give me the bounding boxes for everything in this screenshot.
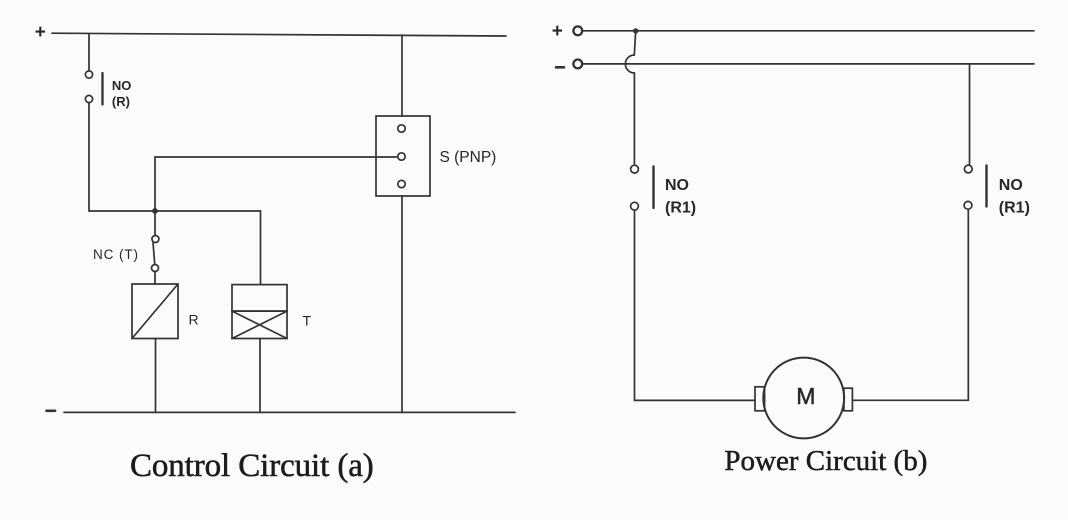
wire top supply rail (control): [52, 33, 506, 36]
wire top supply rail (power): [582, 30, 1034, 32]
wire right riser up to NO(R1): [967, 210, 969, 400]
wire from node A to S(PNP) middle pin: [155, 156, 398, 158]
wire R coil to bottom rail: [155, 339, 157, 413]
switch NC(T) top contact circle: [152, 236, 159, 243]
motor right brush rectangle: [844, 388, 853, 411]
switch NC(T) lever: [153, 243, 155, 265]
svg-text:+: +: [552, 21, 563, 42]
svg-text:NO: NO: [999, 177, 1023, 194]
sensor S pin 1 circle: [398, 125, 405, 132]
wire bottom left to motor: [635, 399, 756, 401]
wire from node A toward T coil: [155, 210, 261, 212]
relay coil R diagonal: [132, 284, 178, 339]
wire up from node A: [154, 157, 156, 211]
wire from + rail down to hop: [634, 31, 635, 55]
sensor S pin 3 circle: [398, 180, 405, 187]
switch NO(R) bottom contact circle: [85, 95, 92, 102]
svg-text:(R1): (R1): [999, 200, 1030, 217]
sensor S(PNP) box: [376, 116, 430, 196]
svg-text:NC (T): NC (T): [93, 247, 139, 262]
wire horizontal to node A: [89, 210, 155, 212]
switch NO(R1) left top contact circle: [631, 165, 639, 173]
svg-text:Power Circuit (b): Power Circuit (b): [724, 445, 927, 477]
wire left NO(R1) down to bottom: [634, 210, 636, 400]
switch NO(R) actuator bar: [101, 73, 103, 105]
wire minus supply rail (power): [582, 63, 1034, 65]
wire motor to right riser: [852, 399, 968, 401]
sensor S pin 2 circle: [398, 153, 405, 160]
motor left brush rectangle: [755, 387, 765, 411]
label NO (R): [112, 78, 131, 109]
label NO (R1) left: [665, 177, 696, 217]
timer coil T cross X: [232, 311, 287, 338]
svg-text:(R): (R): [112, 94, 130, 109]
switch NO(R1) right top contact circle: [964, 165, 972, 173]
label M: [796, 383, 815, 409]
switch NO(R1) left bottom contact circle: [631, 202, 639, 210]
wire T coil to bottom rail: [259, 339, 261, 413]
node B junction dot on + rail: [633, 28, 638, 33]
label T: [303, 313, 312, 329]
node + (power circuit plus terminal label): [552, 21, 563, 42]
motor M circle: [763, 358, 844, 439]
svg-text:+: +: [35, 22, 46, 43]
node + (control circuit plus terminal label): [35, 22, 46, 43]
wire right NO(R1) up to minus rail: [969, 64, 971, 165]
svg-text:Control Circuit (a): Control Circuit (a): [130, 448, 374, 484]
svg-text:NO: NO: [112, 78, 131, 93]
wire node A to NC(T): [154, 214, 156, 235]
switch NO(R1) left actuator bar: [652, 167, 654, 209]
label NO (R1) right: [999, 177, 1030, 217]
node - (power circuit minus terminal label): [556, 66, 564, 69]
label NC (T): [93, 247, 139, 262]
label Power Circuit (b): [724, 445, 927, 477]
svg-text:M: M: [796, 383, 815, 409]
node A junction dot: [152, 208, 158, 214]
switch NO(R1) right bottom contact circle: [964, 201, 972, 209]
wire bottom supply rail (control): [64, 411, 515, 413]
switch NO(R1) right actuator bar: [985, 166, 987, 207]
wire S box to bottom rail: [401, 196, 403, 412]
terminal circle - (power): [573, 60, 582, 69]
svg-text:(R1): (R1): [665, 200, 696, 217]
relay coil R box: [132, 284, 178, 339]
svg-text:T: T: [303, 313, 312, 329]
node - (control circuit minus terminal label): [47, 409, 56, 412]
timer coil T box lower rectangle: [232, 311, 287, 338]
wire hop to left NO(R1) switch: [633, 73, 635, 165]
terminal circle + (power): [573, 26, 582, 35]
switch NO(R) top contact circle: [85, 71, 92, 78]
timer coil T box upper rectangle: [232, 285, 287, 312]
wire NC(T) to relay coil R: [154, 272, 156, 285]
label R: [189, 312, 199, 328]
wire from + rail down to NO(R) switch: [88, 34, 90, 71]
svg-text:R: R: [189, 312, 199, 328]
wire from NO(R) down: [88, 103, 90, 211]
label Control Circuit (a): [130, 448, 374, 484]
switch NC(T) bottom contact circle: [152, 265, 159, 272]
wire down to T coil: [260, 211, 262, 285]
svg-text:NO: NO: [665, 177, 689, 194]
wire + rail down to sensor S box: [401, 35, 403, 116]
label S (PNP): [440, 149, 497, 166]
svg-text:S (PNP): S (PNP): [440, 149, 497, 166]
wire hop over minus rail: [625, 55, 634, 73]
